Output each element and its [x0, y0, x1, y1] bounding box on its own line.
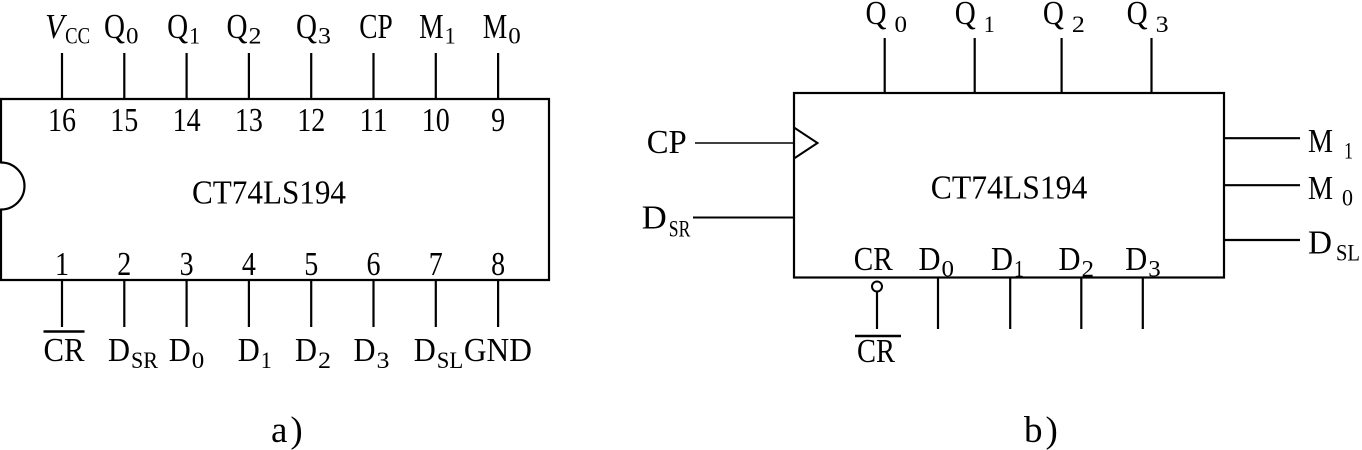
svg-text:3: 3	[1148, 257, 1161, 282]
wire: Q2 output lead (b)	[1060, 38, 1062, 94]
wire: pin 11 lead (a)	[372, 53, 374, 100]
svg-text:Q: Q	[1043, 0, 1064, 32]
svg-text:b): b)	[1024, 410, 1061, 450]
svg-text:4: 4	[242, 246, 256, 283]
wire: pin 15 lead (a)	[123, 53, 125, 100]
wire: pin 10 lead (a)	[435, 53, 437, 100]
svg-text:CR: CR	[857, 333, 895, 370]
svg-text:CP: CP	[359, 7, 393, 46]
svg-text:8: 8	[491, 246, 505, 283]
wire: pin 14 lead (a)	[186, 53, 188, 100]
svg-text:3: 3	[318, 24, 331, 49]
svg-text:CT74LS194: CT74LS194	[192, 175, 346, 212]
wire: M1 input lead (b)	[1224, 137, 1300, 139]
svg-text:CT74LS194: CT74LS194	[931, 170, 1088, 207]
overline of CR-bar label (b)	[855, 335, 901, 338]
svg-text:D: D	[919, 241, 941, 278]
svg-text:2: 2	[318, 348, 331, 373]
svg-text:0: 0	[192, 348, 205, 373]
svg-text:Q: Q	[227, 7, 248, 46]
wire: CP input (b)	[695, 142, 794, 144]
clock edge-trigger wedge on CP pin (b)	[794, 128, 818, 159]
wire: D2 input lead (b)	[1080, 278, 1082, 330]
wire: pin 1 lead (a)	[61, 280, 63, 327]
svg-text:2: 2	[249, 24, 262, 49]
svg-text:0: 0	[126, 24, 139, 49]
svg-text:0: 0	[942, 257, 955, 282]
svg-text:CP: CP	[647, 124, 687, 161]
active-low bubble on CR pin (b)	[872, 282, 882, 292]
svg-text:SL: SL	[437, 348, 464, 373]
svg-text:SR: SR	[669, 216, 691, 241]
wire: pin 16 lead (a)	[61, 53, 63, 100]
overline of CR (a)	[44, 330, 85, 333]
svg-text:7: 7	[429, 246, 443, 283]
svg-text:3: 3	[180, 246, 194, 283]
svg-text:D: D	[414, 332, 436, 369]
svg-text:D: D	[1125, 241, 1147, 278]
svg-text:CC: CC	[65, 24, 90, 49]
wire: D3 input lead (b)	[1142, 278, 1144, 330]
svg-text:16: 16	[48, 102, 76, 139]
svg-text:Q: Q	[104, 7, 125, 46]
svg-text:M: M	[1308, 123, 1333, 160]
wire: pin 5 lead (a)	[310, 280, 312, 327]
svg-text:D: D	[238, 332, 260, 369]
wire: pin 8 lead (a)	[497, 280, 499, 327]
pin-1 index notch (a)	[1, 163, 24, 210]
svg-text:Q: Q	[866, 0, 887, 32]
svg-text:M: M	[419, 7, 444, 46]
svg-text:9: 9	[491, 102, 505, 139]
wire: pin 12 lead (a)	[310, 53, 312, 100]
svg-text:GND: GND	[464, 332, 532, 369]
svg-text:1: 1	[445, 24, 456, 49]
wire: pin 7 lead (a)	[435, 280, 437, 327]
svg-text:Q: Q	[167, 7, 188, 46]
svg-text:a): a)	[271, 410, 306, 450]
wire: Q1 output lead (b)	[974, 38, 976, 94]
wire: pin 2 lead (a)	[123, 280, 125, 327]
svg-text:D: D	[991, 241, 1013, 278]
IC U2 logic symbol body CT74LS194 (b)	[794, 93, 1224, 278]
svg-text:CR: CR	[854, 241, 893, 278]
wire: pin 3 lead (a)	[186, 280, 188, 327]
wire: pin 9 lead (a)	[497, 53, 499, 100]
svg-text:1: 1	[984, 12, 995, 37]
svg-text:0: 0	[1342, 186, 1353, 211]
wire: DSL input lead (b)	[1224, 239, 1300, 241]
IC U1 package body CT74LS194 (a)	[1, 99, 549, 280]
svg-text:1: 1	[261, 348, 272, 373]
svg-text:0: 0	[508, 24, 521, 49]
svg-text:V: V	[45, 7, 67, 46]
svg-text:1: 1	[189, 24, 200, 49]
svg-text:14: 14	[173, 102, 201, 139]
svg-text:0: 0	[895, 12, 908, 37]
svg-text:D: D	[108, 332, 130, 369]
svg-text:D: D	[169, 332, 191, 369]
svg-text:11: 11	[360, 102, 388, 139]
svg-text:D: D	[1308, 225, 1332, 262]
wire: pin 4 lead (a)	[248, 280, 250, 327]
svg-text:3: 3	[377, 348, 390, 373]
svg-text:13: 13	[235, 102, 263, 139]
wire: CR input lead below bubble (b)	[876, 292, 878, 329]
svg-text:SR: SR	[131, 348, 159, 373]
wire: pin 6 lead (a)	[372, 280, 374, 327]
svg-text:Q: Q	[1127, 0, 1148, 32]
svg-text:Q: Q	[955, 0, 976, 32]
wire: Q3 output lead (b)	[1150, 38, 1152, 94]
svg-text:2: 2	[117, 246, 131, 283]
svg-text:5: 5	[304, 246, 318, 283]
svg-text:2: 2	[1072, 12, 1085, 37]
svg-text:D: D	[354, 332, 376, 369]
svg-text:10: 10	[422, 102, 450, 139]
svg-text:Q: Q	[296, 7, 317, 46]
wire: Q0 output lead (b)	[884, 38, 886, 94]
svg-text:D: D	[295, 332, 317, 369]
svg-text:M: M	[483, 7, 508, 46]
svg-text:D: D	[1059, 241, 1081, 278]
svg-text:12: 12	[297, 102, 325, 139]
svg-text:CR: CR	[44, 332, 85, 369]
svg-text:1: 1	[1344, 139, 1353, 164]
svg-text:1: 1	[55, 246, 69, 283]
wire: pin 13 lead (a)	[248, 53, 250, 100]
svg-text:SL: SL	[1336, 241, 1360, 266]
svg-text:15: 15	[110, 102, 138, 139]
svg-text:6: 6	[367, 246, 381, 283]
wire: D1 input lead (b)	[1009, 278, 1011, 330]
svg-text:1: 1	[1014, 257, 1024, 282]
svg-text:M: M	[1308, 170, 1333, 207]
wire: M0 input lead (b)	[1224, 184, 1300, 186]
wire: D0 input lead (b)	[937, 278, 939, 330]
wire: DSR input (b)	[693, 217, 794, 219]
svg-text:3: 3	[1156, 12, 1169, 37]
svg-text:D: D	[642, 199, 667, 236]
svg-text:2: 2	[1082, 257, 1095, 282]
